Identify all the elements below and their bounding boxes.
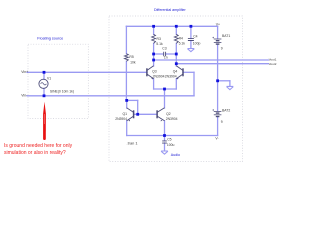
capacitor C4 (188, 38, 194, 40)
wire Q4 base down to Vin- (193, 72, 195, 96)
svg-text:5.1k: 5.1k (156, 42, 163, 46)
transistor Q1 (127, 108, 134, 122)
svg-text:V-: V- (215, 137, 218, 141)
svg-text:2N3904: 2N3904 (153, 74, 165, 78)
svg-text:Vout1: Vout1 (269, 57, 277, 61)
svg-text:5.1k: 5.1k (179, 42, 186, 46)
wire Q1 diode connect horizontal (127, 99, 138, 101)
wire Vin+ (wire1) (27, 71, 147, 73)
wire R3 bottom to Q3 collector (153, 43, 155, 66)
node rail-R3 (152, 25, 155, 28)
svg-text:R5: R5 (129, 55, 133, 59)
capacitor C3 (164, 52, 166, 56)
battery BAT1 (212, 37, 221, 44)
svg-text:Q2: Q2 (166, 112, 171, 116)
wire Q2 emitter lead (164, 121, 166, 136)
node rail-R4 (175, 25, 178, 28)
svg-text:Q1: Q1 (123, 112, 128, 116)
wire R5 column top (125, 26, 127, 53)
wire C5 bottom lead (164, 143, 166, 151)
svg-text:C4: C4 (193, 34, 197, 38)
node battery mid-ground (216, 79, 219, 82)
wire V1 bottom lead (43, 88, 45, 96)
svg-text:V+: V+ (216, 23, 220, 27)
svg-text:Floating source: Floating source (37, 37, 63, 41)
wire Vout1 (wireA) (154, 59, 269, 61)
svg-text:2N3904: 2N3904 (165, 74, 177, 78)
resistor R5 (125, 54, 129, 62)
svg-text:BAT1: BAT1 (222, 34, 230, 38)
node V1-wire2 (43, 94, 46, 97)
svg-text:SINE(0 10m 1k): SINE(0 10m 1k) (50, 90, 74, 94)
wire ground branch vertical (229, 81, 231, 87)
node wireB tap (175, 62, 178, 65)
svg-text:simulation or also in reality?: simulation or also in reality? (4, 150, 66, 156)
svg-text:R3: R3 (157, 37, 161, 41)
node base bus tap (136, 113, 139, 116)
svg-text:1n: 1n (164, 55, 168, 59)
wire bottom rail V- (127, 135, 218, 137)
node wireA tap (152, 59, 155, 62)
red annotation arrow (43, 102, 46, 140)
wire Q4 emitter down (175, 79, 177, 89)
battery BAT2 (212, 109, 221, 116)
wire Vout2 (wireB) (176, 63, 268, 65)
wire ground branch horizontal (218, 80, 230, 82)
wire C3 left lead (154, 53, 164, 55)
wire tail to Q2 collector (164, 89, 166, 108)
wire Q1 diode connect vertical (137, 100, 139, 114)
svg-text:9: 9 (221, 46, 223, 50)
wire battery top lead (217, 26, 219, 38)
node C3 left (152, 53, 155, 56)
wire C4 top lead (190, 26, 192, 38)
red annotation text (4, 143, 73, 156)
transistor Q3 (147, 66, 154, 80)
svg-text:Vin+: Vin+ (21, 70, 28, 74)
wire Q4 base right (183, 71, 194, 73)
svg-text:100p: 100p (193, 42, 201, 46)
svg-text:2N3904: 2N3904 (166, 117, 178, 121)
transistor Q4 (176, 66, 183, 80)
wire C3 right lead (166, 53, 176, 55)
differential amplifier dashed box (109, 16, 242, 162)
wire R4 top lead (175, 26, 177, 34)
wire C5 top lead (164, 136, 166, 141)
wire C4 bottom lead (190, 41, 192, 49)
svg-text:Is ground needed here for only: Is ground needed here for only (4, 143, 73, 149)
node C3 right (175, 53, 178, 56)
node rail-Q2 emitter-C5 (163, 134, 166, 137)
svg-text:2N3904: 2N3904 (115, 117, 127, 121)
ground battery mid (227, 86, 234, 89)
wire V+ rail (126, 25, 217, 27)
node rail-C4 (190, 25, 193, 28)
svg-text:C3: C3 (162, 47, 166, 51)
voltage source V1 (39, 79, 48, 88)
node Q1 collector diode (125, 99, 128, 102)
wire battery bottom lead (217, 117, 219, 136)
svg-text:R4: R4 (179, 37, 183, 41)
node emitter join (163, 88, 166, 91)
resistor R3 (152, 34, 156, 43)
wire R3 top lead (153, 26, 155, 34)
node V1-wire1 (43, 71, 46, 74)
svg-text:100u: 100u (167, 143, 175, 147)
ground under C5 (161, 151, 168, 154)
floating source dashed box (28, 44, 88, 118)
wire battery middle (217, 44, 219, 111)
wire R5 column bottom (125, 61, 127, 100)
resistor R4 (174, 34, 178, 43)
wire base bus Q1-Q2 (134, 113, 157, 115)
wire Q3 emitter down (153, 79, 155, 89)
capacitor C5 (162, 141, 167, 143)
svg-text:C5: C5 (167, 137, 171, 141)
wire emitter join (154, 88, 177, 90)
svg-text:Vin-: Vin- (21, 93, 27, 97)
svg-text:BAT2: BAT2 (222, 108, 230, 112)
svg-text:Differential amplifier: Differential amplifier (154, 8, 186, 12)
wire R4 bottom to Q4 collector (175, 43, 177, 66)
ground under C4 (188, 49, 195, 52)
svg-text:Audio: Audio (171, 153, 180, 157)
svg-text:Q4: Q4 (173, 69, 178, 73)
svg-text:V1: V1 (47, 76, 51, 80)
svg-text:10k: 10k (130, 60, 136, 64)
wire V1 top lead (43, 72, 45, 79)
transistor Q2 (157, 108, 164, 122)
svg-text:Vout2: Vout2 (269, 62, 277, 66)
svg-text:9: 9 (221, 120, 223, 124)
wire Q1 emitter lead (126, 121, 128, 136)
wire Vin- (wire2) (27, 95, 194, 97)
svg-text:Q3: Q3 (152, 69, 157, 73)
svg-text:.tran 1: .tran 1 (127, 140, 138, 145)
wire Q1 collector lead (126, 100, 128, 108)
